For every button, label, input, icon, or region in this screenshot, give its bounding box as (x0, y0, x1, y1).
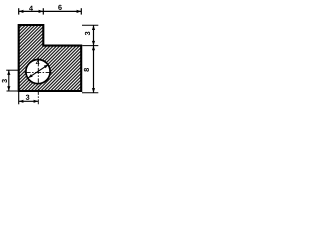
arrow dim3 down (92, 41, 95, 46)
dimension label 3 right (85, 32, 90, 36)
left extension line top (6, 69, 18, 71)
part outline (19, 25, 81, 91)
extension tick left (18, 8, 20, 14)
hole label 4 (36, 60, 40, 65)
horizontal centerline (25, 71, 52, 73)
arrow bottom3 left (19, 100, 24, 103)
dimension label 8 right (84, 68, 89, 72)
right extension line middle (82, 45, 98, 47)
diameter arrow lower left (28, 74, 33, 78)
hole diameter line (28, 65, 48, 78)
section hatching (14, 20, 86, 96)
arrow left3 down (7, 86, 10, 91)
hole circle (26, 60, 50, 84)
dimension label 4 (29, 6, 33, 11)
arrow dim4 right (39, 10, 44, 13)
extension tick right (80, 8, 82, 14)
left dimension line (8, 70, 10, 91)
dimension label 6 (58, 5, 62, 10)
right extension line top (82, 24, 98, 26)
bottom extension tick (18, 92, 20, 104)
arrow dim4 left (19, 10, 24, 13)
arrow dim6 right (77, 10, 82, 13)
bottom dimension line (19, 100, 39, 102)
arrow dim3 up (92, 26, 95, 31)
left extension line bottom (7, 90, 18, 92)
top dimension line (19, 10, 82, 12)
dimension label 3 left (2, 79, 7, 83)
arrow dim8 up (92, 46, 95, 51)
extension tick middle (42, 8, 44, 14)
right extension line bottom (82, 92, 98, 94)
arrow dim8 down (92, 88, 95, 93)
right dimension line (93, 25, 95, 93)
diameter arrow upper right (44, 65, 49, 69)
vertical centerline (37, 57, 39, 104)
arrow left3 up (7, 70, 10, 75)
arrow bottom3 right (34, 100, 39, 103)
dimension label 3 bottom (26, 95, 30, 100)
